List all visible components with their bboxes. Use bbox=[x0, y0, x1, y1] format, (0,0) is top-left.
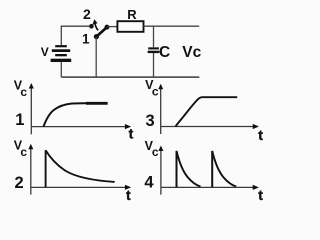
svg-text:c: c bbox=[20, 85, 27, 99]
svg-text:c: c bbox=[152, 84, 159, 98]
svg-text:t: t bbox=[258, 187, 263, 203]
svg-text:1: 1 bbox=[82, 32, 90, 47]
svg-text:C: C bbox=[159, 44, 170, 61]
svg-text:Vc: Vc bbox=[182, 44, 201, 61]
svg-text:c: c bbox=[152, 145, 159, 159]
svg-text:1: 1 bbox=[15, 111, 24, 129]
svg-text:2: 2 bbox=[83, 6, 91, 22]
svg-text:V: V bbox=[41, 45, 49, 59]
svg-text:t: t bbox=[258, 127, 263, 143]
svg-text:3: 3 bbox=[146, 112, 155, 130]
svg-text:c: c bbox=[20, 145, 27, 159]
svg-text:t: t bbox=[126, 187, 131, 203]
svg-text:2: 2 bbox=[15, 174, 24, 192]
svg-text:4: 4 bbox=[144, 174, 154, 192]
svg-text:R: R bbox=[127, 7, 137, 22]
svg-text:t: t bbox=[129, 126, 134, 142]
